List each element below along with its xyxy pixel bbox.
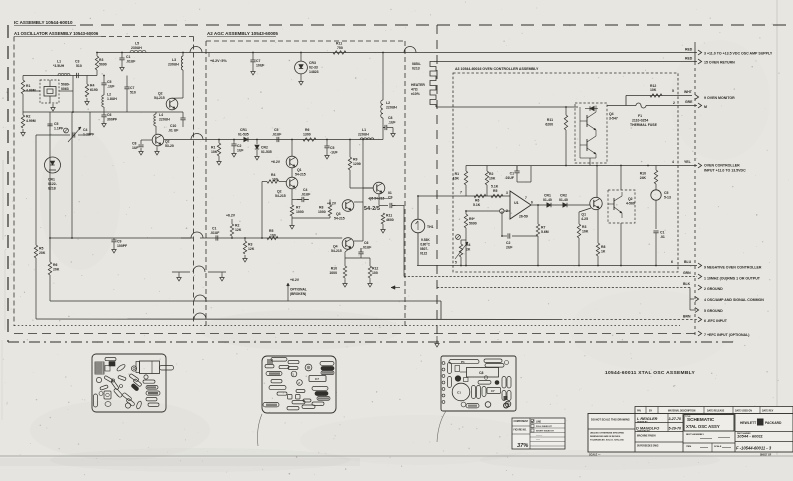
resistor R3 vertical: [95, 56, 98, 70]
svg-text:A3 10544-60016 OVEN CONTROLLER: A3 10544-60016 OVEN CONTROLLER ASSEMBLY: [455, 67, 539, 71]
svg-text:1200: 1200: [353, 162, 361, 166]
svg-text:THERMAL FUSE: THERMAL FUSE: [630, 123, 658, 127]
wire bottom bus1: [50, 300, 441, 302]
svg-text:100: 100: [272, 178, 278, 182]
capacitor C8: [138, 144, 143, 146]
svg-text:0213: 0213: [412, 67, 420, 71]
resistor R4 100: [267, 180, 279, 183]
crystal Y1 symbol: [44, 87, 56, 97]
svg-text:4600: 4600: [386, 218, 394, 222]
pin 2 arrow: [698, 285, 702, 290]
ground Q2 network: [291, 222, 293, 226]
svg-text:R11: R11: [336, 42, 342, 46]
ground C6: [103, 120, 105, 124]
svg-text:CHECKED BY: CHECKED BY: [637, 430, 651, 432]
resistor R11 750: [333, 51, 346, 54]
svg-text:RED: RED: [685, 48, 693, 52]
wire Q1 collector: [596, 166, 598, 198]
wire pin1 output: [404, 276, 697, 278]
svg-text:DATE USED ON: DATE USED ON: [735, 410, 752, 413]
svg-text:SCHEMATIC: SCHEMATIC: [687, 417, 715, 422]
wire C9 to output: [396, 205, 404, 207]
ground pair right: [221, 274, 223, 278]
svg-text:±10%: ±10%: [411, 92, 420, 96]
svg-text:C7: C7: [491, 389, 495, 393]
diode CR2 oven: [563, 203, 567, 207]
svg-text:2K: 2K: [466, 248, 471, 252]
svg-text:CR1: CR1: [240, 128, 247, 132]
A2 box top edge: [206, 40, 405, 42]
svg-text:12K: 12K: [235, 228, 242, 232]
wire bottom bus2: [36, 318, 560, 321]
capacitor C7a: [124, 86, 129, 88]
svg-text:7: 7: [460, 191, 462, 195]
resistor R5 20K: [34, 245, 37, 258]
svg-text:R5: R5: [493, 189, 497, 193]
registration marks: [504, 396, 508, 400]
transistor Q5: [373, 182, 385, 194]
svg-text:3-27-70: 3-27-70: [669, 417, 682, 421]
svg-text:C8: C8: [132, 142, 136, 146]
svg-text:L3: L3: [172, 58, 176, 62]
svg-text:R9*: R9*: [469, 217, 475, 221]
ground C1: [121, 64, 123, 68]
svg-text:C9: C9: [388, 196, 392, 200]
svg-text:2110-0254: 2110-0254: [632, 119, 648, 123]
ground R4: [86, 98, 88, 102]
svg-text:5: 5: [455, 261, 457, 265]
svg-text:L1: L1: [57, 60, 61, 64]
wire Q4 internals: [579, 107, 581, 158]
resistor R6 1300: [303, 138, 316, 141]
svg-text:C7: C7: [130, 86, 134, 90]
hop rail E at boundary: [191, 232, 203, 238]
capacitor C1 a1: [119, 57, 124, 59]
svg-text:HEATER: HEATER: [411, 83, 425, 87]
pin 4b arrow: [695, 297, 699, 302]
wire gnd pair left: [172, 271, 190, 273]
pin 15 arrow: [698, 59, 702, 64]
pin 4 arrow: [698, 163, 702, 168]
svg-text:510: 510: [130, 91, 136, 95]
inductor L3 vertical: [181, 56, 183, 70]
svg-text:6 -EFC INPUT: 6 -EFC INPUT: [704, 319, 728, 323]
svg-text:L1: L1: [362, 128, 366, 132]
capacitor C5b 1.1PF: [47, 123, 52, 125]
wire opamp plus input: [453, 195, 510, 197]
svg-text:R2: R2: [235, 224, 239, 228]
svg-text:47Ω: 47Ω: [411, 88, 418, 92]
svg-text:C4: C4: [83, 128, 87, 132]
svg-text:0807-: 0807-: [420, 247, 428, 251]
ground C2 agc: [233, 150, 235, 154]
svg-text:220UH: 220UH: [159, 118, 170, 122]
transistor Q3 54-215: [342, 200, 354, 212]
pin 6 arrow: [698, 263, 702, 268]
svg-text:R11: R11: [547, 118, 553, 122]
svg-text:5090: 5090: [469, 222, 477, 226]
svg-text:P/N: P/N: [637, 411, 641, 413]
svg-text:C9: C9: [117, 240, 121, 244]
svg-text:RED: RED: [685, 57, 693, 61]
svg-text:SHEET OF: SHEET OF: [760, 455, 772, 457]
resistor R7 5.6M: [536, 224, 539, 236]
resistor R10 24K: [654, 170, 657, 184]
svg-text:R2: R2: [489, 172, 493, 176]
diode CR3: [295, 61, 308, 74]
resistor R2 vertical: [21, 115, 24, 128]
wire left mid column x50: [49, 112, 51, 238]
svg-text:CR3: CR3: [309, 61, 316, 65]
resistor R9 1200: [348, 157, 351, 170]
svg-text:TH1: TH1: [427, 225, 434, 229]
capacitor C2 agc: [231, 143, 236, 145]
svg-text:+6.2V: +6.2V: [271, 160, 281, 164]
svg-text:230UH: 230UH: [168, 63, 179, 67]
svg-text:12K: 12K: [248, 247, 255, 251]
wire oven monitor: [626, 95, 692, 97]
svg-text:R6: R6: [305, 128, 309, 132]
svg-text:DO NOT SCALE THIS DRAWING: DO NOT SCALE THIS DRAWING: [591, 418, 630, 422]
wire pin6 negative oven controller (bus): [417, 265, 697, 267]
svg-text:1000: 1000: [318, 210, 326, 214]
svg-text:1000: 1000: [296, 210, 304, 214]
svg-text:OPTIONAL: OPTIONAL: [290, 288, 307, 292]
wire left column: [22, 76, 24, 81]
svg-text:3 +11.0 TO +13.5 VDC OSC AMP S: 3 +11.0 TO +13.5 VDC OSC AMP SUPPLY: [704, 52, 773, 56]
svg-text:C1: C1: [457, 391, 461, 395]
svg-text:2: 2: [506, 209, 508, 213]
svg-text:5.6M: 5.6M: [541, 230, 549, 234]
capacitor C8 agc: [383, 127, 384, 129]
resistor R2 10K oven: [485, 171, 488, 185]
pin 9 arrow: [695, 95, 699, 100]
wire heater bottom rail: [436, 106, 578, 108]
svg-text:R9: R9: [353, 158, 357, 162]
varicap CR1 a1: [45, 157, 61, 173]
svg-text:6: 6: [671, 260, 673, 264]
A2 box right edge: [404, 41, 406, 326]
svg-text:.01UF: .01UF: [210, 231, 219, 235]
svg-text:R8: R8: [601, 245, 605, 249]
svg-text:54-215: 54-215: [334, 217, 345, 221]
svg-text:1.1PF: 1.1PF: [54, 127, 63, 131]
ground R2: [22, 129, 24, 133]
svg-text:R8: R8: [319, 206, 323, 210]
svg-text:-1UF: -1UF: [330, 151, 338, 155]
svg-text:7 +EFC INPUT (OPTIONAL): 7 +EFC INPUT (OPTIONAL): [704, 333, 749, 337]
thermistor TH1: [411, 219, 425, 233]
svg-text:5-29-70: 5-29-70: [669, 427, 682, 431]
wire opamp output: [531, 204, 590, 206]
svg-text:R3: R3: [99, 58, 103, 62]
svg-text:R10: R10: [640, 172, 646, 176]
svg-text:A1 OSCILLATOR ASSEMBLY 10543-6: A1 OSCILLATOR ASSEMBLY 10543-60006: [14, 31, 99, 36]
capacitor C10: [180, 117, 185, 119]
wire rail C: [23, 111, 183, 113]
PCB board A2 outline: [262, 356, 336, 413]
svg-text:C2: C2: [506, 241, 510, 245]
resistor R1 10K agc: [217, 143, 220, 156]
svg-text:0122: 0122: [420, 252, 427, 256]
resistor R8 1000: [328, 205, 331, 216]
pen mark under board A2: [258, 414, 263, 446]
svg-text:LINE: LINE: [536, 422, 542, 424]
outer assembly boundary bottom: [8, 341, 735, 343]
svg-text:SUPERSEDES DWG: SUPERSEDES DWG: [637, 446, 659, 448]
svg-text:01: 01: [388, 191, 392, 195]
svg-text:*3.5UH: *3.5UH: [53, 64, 65, 68]
svg-text:CR2: CR2: [261, 146, 268, 150]
transistor Q1 54-215: [286, 156, 298, 168]
wire C2 feedback: [501, 211, 503, 236]
svg-text:1.8UH: 1.8UH: [107, 97, 117, 101]
capacitor C6 agc: [360, 248, 362, 252]
pin 7 arrow: [698, 331, 702, 336]
svg-text:C4: C4: [303, 188, 307, 192]
svg-text:54-215: 54-215: [275, 194, 286, 198]
svg-text:L2: L2: [107, 93, 111, 97]
svg-text:1UF: 1UF: [132, 146, 139, 150]
capacitor C1 agc: [215, 235, 217, 240]
svg-text:.01UF: .01UF: [505, 176, 514, 180]
capacitor C9 agc: [389, 203, 391, 208]
svg-text:10K: 10K: [650, 88, 657, 92]
svg-text:.01 UF: .01 UF: [168, 129, 178, 133]
svg-text:+6.2V: +6.2V: [290, 278, 300, 282]
svg-text:Q2: Q2: [628, 197, 633, 201]
svg-text:F -10544-60011 - 3: F -10544-60011 - 3: [736, 446, 772, 451]
svg-text:230UH: 230UH: [131, 46, 142, 50]
wire optional: [287, 283, 289, 301]
svg-text:TOLERANCES .XX±.01 .XXX±.005: TOLERANCES .XX±.01 .XXX±.005: [590, 439, 625, 442]
outer assembly boundary top (dash-dot): [80, 24, 790, 26]
PCB board A1 outline: [92, 354, 166, 412]
wire opamp minus input: [466, 210, 499, 212]
svg-text:54-215: 54-215: [295, 173, 306, 177]
resistor R1 10K oven: [464, 171, 467, 185]
svg-text:02-33: 02-33: [309, 66, 318, 70]
resistor R6 20K: [48, 262, 51, 275]
minus junction circle: [500, 209, 504, 213]
svg-text:100PF: 100PF: [117, 244, 127, 248]
left margin streaks: [2, 160, 4, 240]
resistor R12 100: [368, 266, 371, 278]
PCB board A3 components: [442, 359, 511, 408]
resistor R3 10K oven: [577, 224, 580, 238]
svg-text:YEL: YEL: [684, 160, 691, 164]
wire rail A top: [97, 52, 383, 54]
svg-text:54-2/5: 54-2/5: [364, 206, 380, 212]
svg-text:01-40: 01-40: [543, 198, 552, 202]
svg-text:4.99M: 4.99M: [26, 89, 36, 93]
ground C8 agc: [392, 130, 394, 134]
transistor Q4 lower: [586, 139, 588, 151]
resistor R1 vertical: [21, 80, 24, 94]
svg-text:R1: R1: [455, 172, 459, 176]
resistor R7 1000: [290, 205, 293, 216]
ground pair left: [178, 274, 180, 278]
ground R3 12K: [244, 255, 246, 259]
ground C9: [113, 246, 115, 250]
svg-text:C7: C7: [256, 59, 260, 63]
svg-text:R7: R7: [541, 226, 545, 230]
diode CR1 oven: [547, 203, 551, 207]
hop rail D at boundary: [191, 134, 203, 140]
transistor Q2 4-560 box: [608, 190, 635, 223]
svg-text:C10: C10: [170, 124, 176, 128]
diode CR1 agc: [244, 137, 248, 141]
trimmer mark C4: [64, 128, 69, 133]
svg-text:.01UF: .01UF: [301, 193, 310, 197]
svg-text:R4: R4: [466, 243, 470, 247]
wire fuse line: [607, 105, 636, 107]
svg-text:R1: R1: [211, 146, 215, 150]
capacitor C5 agc: [276, 137, 278, 142]
inductor L5: [130, 50, 146, 52]
ground CR3: [300, 78, 302, 82]
svg-text:C2: C2: [237, 144, 241, 148]
wire Q2 network: [291, 216, 293, 222]
svg-text:7: 7: [525, 196, 527, 200]
svg-text:WHT: WHT: [684, 90, 693, 94]
capacitor C5 5-13: [651, 190, 661, 200]
capacitor C5 column: [101, 82, 106, 84]
svg-text:0122-: 0122-: [48, 182, 57, 186]
wire A3 opamp rail: [465, 166, 467, 169]
svg-text:L5: L5: [135, 42, 139, 46]
capacitor C6 a1: [101, 114, 106, 116]
connector boundary vertical: [694, 42, 696, 62]
svg-text:CR1: CR1: [544, 194, 551, 198]
svg-text:15 OVEN RETURN: 15 OVEN RETURN: [704, 61, 735, 65]
svg-text:R5: R5: [269, 229, 273, 233]
svg-text:+6.2V: +6.2V: [226, 214, 236, 218]
svg-text:UNLESS OTHERWISE SPECIFIED: UNLESS OTHERWISE SPECIFIED: [590, 433, 625, 435]
A1 box left edge: [13, 37, 15, 327]
inductor L2 220UH: [381, 100, 383, 118]
svg-text:3: 3: [506, 191, 508, 195]
svg-text:.01UF: .01UF: [126, 60, 135, 64]
wire pin15 oven return: [436, 61, 697, 63]
svg-text:L4: L4: [159, 113, 163, 117]
svg-text:C5: C5: [107, 80, 111, 84]
svg-text:ITEM: ITEM: [686, 446, 691, 448]
svg-text:Q1: Q1: [581, 213, 586, 217]
svg-text:100: 100: [372, 271, 378, 275]
hop bus1: [194, 295, 206, 301]
wire pin2 ground: [437, 287, 690, 289]
svg-text:5.1K: 5.1K: [473, 203, 481, 207]
svg-text:MATERIAL DESCRIPTION: MATERIAL DESCRIPTION: [668, 410, 696, 413]
svg-text:1-28PF: 1-28PF: [83, 133, 94, 137]
inductor L1 220UH: [360, 138, 374, 140]
svg-text:220UH: 220UH: [358, 133, 369, 137]
svg-text:20K: 20K: [53, 268, 60, 272]
svg-text:R11: R11: [386, 214, 392, 218]
svg-text:5.1K: 5.1K: [491, 185, 499, 189]
svg-text:HEWLETT: HEWLETT: [740, 421, 756, 425]
transistor Q4 darlington box: [575, 103, 607, 163]
thermal fuse F1: [636, 103, 646, 108]
hop gnd pair: [193, 266, 205, 272]
resistor R2 12K: [230, 224, 233, 236]
diode Q4 internal: [590, 106, 594, 110]
svg-text:C1: C1: [660, 231, 664, 235]
ground R12: [369, 280, 371, 284]
svg-text:10K: 10K: [582, 230, 589, 234]
svg-text:C8: C8: [479, 371, 483, 375]
ground R1 agc: [218, 158, 220, 162]
wire R1 to rail C: [22, 94, 24, 112]
capacitor C9 a1: [111, 239, 116, 241]
svg-text:C7: C7: [315, 377, 319, 381]
svg-text:4-560: 4-560: [626, 202, 635, 206]
svg-text:L2: L2: [386, 101, 390, 105]
svg-text:5080-: 5080-: [61, 83, 70, 87]
svg-text:C6: C6: [364, 241, 368, 245]
svg-text:5-13: 5-13: [664, 196, 671, 200]
wire Q2 collector: [172, 97, 183, 99]
svg-text:10UF: 10UF: [256, 64, 264, 68]
svg-text:4 OSC/AMP AND SIGNAL COMMON: 4 OSC/AMP AND SIGNAL COMMON: [704, 298, 764, 302]
svg-text:Q4: Q4: [609, 112, 614, 116]
resistor R9 5090: [464, 214, 467, 228]
svg-text:6200: 6200: [545, 123, 553, 127]
svg-text:54-215: 54-215: [154, 96, 165, 100]
svg-text:M: M: [704, 105, 707, 109]
ground boundary mark: [436, 340, 438, 344]
svg-text:4: 4: [672, 160, 674, 164]
svg-text:.01UF: .01UF: [362, 246, 371, 250]
svg-text:C3: C3: [75, 60, 79, 64]
hop rail A at A1/A2 boundary: [190, 47, 202, 53]
svg-text:———: ———: [536, 435, 543, 437]
svg-text:6190: 6190: [90, 88, 98, 92]
ground R11 4600: [382, 226, 384, 230]
svg-text:9 NEGATIVE OVEN CONTROLLER: 9 NEGATIVE OVEN CONTROLLER: [704, 266, 762, 270]
svg-text:GRE: GRE: [685, 100, 693, 104]
svg-text:C1: C1: [126, 55, 130, 59]
resistor R6 5.1K: [474, 194, 486, 197]
transistor Q2 54-215 agc: [286, 177, 298, 189]
capacitor C1 .01 right: [653, 230, 658, 232]
svg-text:10K: 10K: [453, 177, 460, 181]
svg-text:TITLE: TITLE: [685, 416, 691, 418]
capacitor C7 10UF: [250, 59, 255, 61]
capacitor C2 2UF: [507, 233, 509, 238]
svg-text:C5: C5: [330, 146, 334, 150]
inductor L4 vertical: [154, 114, 156, 126]
A1/A2 boxes bottom edge (dotted): [14, 325, 680, 327]
svg-text:5 GROUND: 5 GROUND: [704, 309, 723, 313]
svg-text:01-535: 01-535: [261, 150, 272, 154]
pin 6b arrow: [698, 317, 702, 322]
svg-text:2: 2: [673, 101, 675, 105]
svg-text:FIGURE NO.: FIGURE NO.: [514, 430, 528, 432]
svg-text:CR2: CR2: [560, 194, 567, 198]
svg-text:DATE RELEASE: DATE RELEASE: [707, 410, 725, 413]
svg-text:R2: R2: [26, 115, 30, 119]
wire crystal right lead: [59, 90, 73, 92]
svg-text:4-25: 4-25: [581, 217, 588, 221]
oven boundary vertical (dash): [436, 25, 438, 342]
resistor R8 1K: [596, 243, 599, 256]
svg-text:5090: 5090: [99, 63, 107, 67]
svg-text:(BROKEN): (BROKEN): [290, 292, 306, 296]
pen mark under board A3: [437, 411, 446, 442]
wire crystal left lead: [23, 90, 40, 92]
